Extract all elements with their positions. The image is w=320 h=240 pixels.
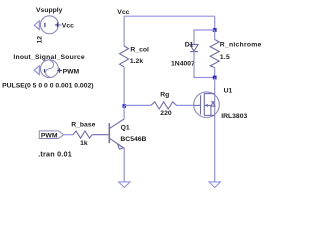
- svg-text:1N4007: 1N4007: [171, 61, 195, 68]
- svg-text:Vsupply: Vsupply: [36, 7, 63, 14]
- svg-text:Inout_Signal_Source: Inout_Signal_Source: [13, 54, 84, 61]
- svg-text:Vcc: Vcc: [62, 22, 74, 29]
- junction node A: [123, 104, 127, 108]
- svg-text:D1: D1: [185, 41, 194, 48]
- wire Vsupply plus to Vcc flag: [58, 24, 61, 26]
- wire Vcc top horizontal: [124, 15, 215, 17]
- wire Q1 emitter to ground: [123, 148, 125, 182]
- junction top node (D1/R_nichrome): [213, 28, 217, 32]
- svg-text:1.2k: 1.2k: [130, 58, 143, 65]
- wire R_nichrome to bottom node: [214, 68, 216, 78]
- mosfet U1: [194, 92, 220, 118]
- svg-text:PULSE(0 5 0 0 0 0.001 0.002): PULSE(0 5 0 0 0 0.001 0.002): [2, 82, 93, 89]
- svg-text:BC546B: BC546B: [120, 136, 146, 143]
- wire R_col to node A: [123, 67, 125, 106]
- svg-text:220: 220: [160, 110, 172, 117]
- svg-text:Q1: Q1: [121, 125, 130, 132]
- ground (Q1 emitter): [119, 182, 130, 188]
- resistor R_col: [120, 46, 129, 67]
- wire bottom node to U1 drain and source down to ground: [214, 78, 216, 183]
- ground (U1 source): [209, 182, 220, 188]
- resistor Rg: [151, 102, 177, 109]
- wire PWM flag to R_base: [64, 134, 73, 136]
- svg-text:R_nichrome: R_nichrome: [220, 41, 262, 48]
- resistor R_nichrome: [210, 40, 219, 68]
- wire Rg to U1 gate: [177, 104, 194, 106]
- wire top node to R_nichrome: [214, 30, 216, 40]
- ground flag (signal source negative): [34, 66, 41, 75]
- voltage source Vsupply: [40, 16, 59, 34]
- svg-text:1.5: 1.5: [220, 54, 230, 61]
- wire Vcc right vertical to top node: [214, 16, 216, 30]
- svg-text:R_base: R_base: [71, 121, 95, 128]
- svg-text:R_col: R_col: [130, 47, 149, 54]
- transistor Q1: [92, 119, 124, 149]
- svg-text:Vcc: Vcc: [117, 9, 129, 16]
- svg-text:PWM: PWM: [63, 68, 80, 75]
- diode D1: [190, 45, 198, 52]
- ground flag (Vsupply negative): [34, 21, 40, 30]
- voltage source Inout_Signal_Source: [41, 60, 62, 78]
- wire node A down to Q1 collector: [123, 106, 125, 119]
- svg-text:U1: U1: [224, 87, 233, 94]
- svg-text:PWM: PWM: [41, 132, 58, 139]
- svg-text:1k: 1k: [80, 140, 88, 147]
- wire top node to D1: [194, 30, 215, 45]
- wire node A to Rg: [124, 104, 151, 106]
- wire Vcc down to R_col: [123, 16, 125, 46]
- junction bottom node (D1/R_nichrome): [213, 76, 217, 80]
- svg-text:IRL3803: IRL3803: [221, 113, 247, 120]
- svg-text:.tran 0.01: .tran 0.01: [38, 149, 72, 158]
- resistor R_base: [73, 131, 92, 138]
- wire D1 to bottom node: [194, 52, 215, 78]
- svg-text:Rg: Rg: [160, 91, 169, 98]
- svg-text:12: 12: [36, 36, 43, 44]
- port flag PWM: [39, 131, 63, 139]
